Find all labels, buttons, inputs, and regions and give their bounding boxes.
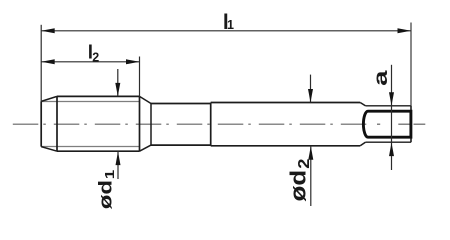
thread left end face: [40, 101, 42, 146]
label od1: [95, 170, 117, 210]
d1 lower arrowhead: [116, 152, 121, 166]
square chamfer bottom: [360, 142, 365, 146]
thread major top line: [57, 95, 140, 97]
svg-text:ød: ød: [95, 180, 116, 209]
svg-text:a: a: [371, 70, 392, 86]
thread left chamfer top: [41, 96, 57, 101]
centerline dot in square: [377, 123, 380, 125]
square outer top line: [365, 105, 411, 107]
d1 upper leader: [117, 69, 119, 96]
svg-text:1: 1: [104, 170, 118, 179]
thread minor diameter line top: [41, 101, 139, 103]
thread left chamfer edge: [56, 96, 58, 151]
svg-text:2: 2: [92, 51, 99, 65]
centerline: [13, 123, 371, 125]
dimension line l2: [41, 61, 139, 63]
l2 right arrowhead: [126, 59, 140, 64]
svg-text:1: 1: [227, 18, 234, 32]
neck top line: [151, 103, 211, 105]
centerline dash past end: [414, 123, 426, 125]
l1 right arrowhead: [398, 28, 412, 33]
l1 left extension line: [40, 25, 42, 102]
thread major bottom line: [57, 150, 140, 152]
thread right face: [150, 104, 152, 146]
d1 upper arrowhead: [115, 83, 120, 97]
svg-text:ød: ød: [286, 170, 311, 202]
neck-shank step: [210, 103, 212, 146]
square outer bottom line: [365, 141, 411, 143]
a leader line: [391, 65, 393, 170]
svg-text:2: 2: [295, 159, 312, 169]
thread right chamfer top: [140, 96, 152, 103]
l1 left arrowhead: [41, 28, 55, 33]
l2 left arrowhead: [41, 59, 55, 64]
d2 lower arrowhead: [308, 146, 313, 160]
dimension line l1: [41, 30, 411, 32]
thread right chamfer bottom: [140, 145, 152, 151]
shank top line: [211, 102, 361, 104]
label od2: [286, 159, 312, 202]
label a: [371, 70, 392, 86]
d2 upper leader: [310, 75, 312, 103]
square drive thick outline: [363, 111, 411, 137]
centerline dash in square: [398, 123, 410, 125]
square chamfer top: [360, 103, 365, 106]
shank bottom line: [211, 145, 361, 147]
tap end face contour: [410, 106, 412, 142]
a upper arrowhead: [389, 92, 394, 106]
thread left chamfer bottom: [41, 147, 57, 152]
neck bottom line: [151, 144, 211, 146]
tap end face: [410, 23, 412, 143]
l2 right extension line: [139, 57, 141, 97]
d1 lower leader: [117, 151, 119, 179]
d2 upper arrowhead: [308, 89, 313, 103]
a lower arrowhead: [389, 143, 394, 157]
d2 lower leader: [310, 146, 312, 206]
thread right chamfer edge: [139, 96, 141, 151]
thread minor diameter line bottom: [41, 146, 139, 148]
